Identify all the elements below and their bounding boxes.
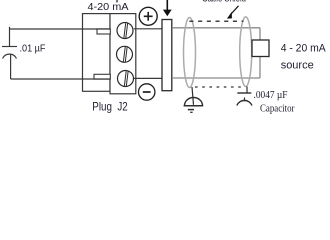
capacitor C2 plates	[237, 93, 252, 106]
svg-text:.01 µF: .01 µF	[20, 43, 46, 54]
svg-text:4-20 mA: 4-20 mA	[88, 2, 129, 13]
svg-text:Cable Shield: Cable Shield	[202, 0, 246, 4]
source drop wire top	[259, 28, 261, 40]
capacitor C2 .0047 uF lead	[246, 87, 248, 93]
cable loop 1	[184, 18, 196, 88]
wire bottom (screw 3 to feedthrough)	[134, 77, 162, 79]
callout arrow to shield	[227, 6, 239, 19]
minus symbol	[139, 84, 155, 100]
wire top right (gray)	[172, 27, 260, 29]
source drop wire bottom	[259, 57, 261, 79]
wire top (screw 1 to feedthrough)	[134, 28, 162, 30]
screw terminal 2	[117, 46, 133, 62]
capacitor C1 .01 uF	[2, 27, 17, 79]
terminal block rectangle	[110, 14, 136, 94]
ground lead	[192, 87, 194, 105]
plus symbol	[139, 7, 157, 25]
screw terminal 3	[118, 71, 134, 87]
arrow into feedthrough	[163, 0, 172, 16]
ground symbol	[184, 98, 204, 113]
plug body rectangle	[83, 14, 111, 92]
shield dashed line bottom	[195, 86, 243, 88]
screw terminal 1	[117, 23, 133, 39]
wire bottom right (gray)	[172, 77, 260, 79]
tab top (terminal 1 lug)	[97, 29, 110, 34]
wire top left (+ line from C1 into plug tab)	[10, 28, 111, 30]
svg-text:Plug J2: Plug J2	[92, 99, 128, 113]
cable loop 2	[240, 17, 252, 87]
svg-text:source: source	[281, 59, 314, 71]
tab bottom (terminal 3 lug)	[94, 74, 110, 79]
feedthrough bar	[162, 20, 172, 91]
shield dashed line top	[189, 20, 243, 22]
clipped stray mark above mA	[116, 0, 117, 2]
svg-text:.0047 µF: .0047 µF	[254, 90, 288, 101]
svg-text:Capacitor: Capacitor	[260, 103, 295, 115]
svg-text:4 - 20 mA: 4 - 20 mA	[281, 43, 327, 55]
wire bottom left (- line from C1 into plug tab)	[11, 78, 111, 80]
source box	[252, 40, 269, 57]
